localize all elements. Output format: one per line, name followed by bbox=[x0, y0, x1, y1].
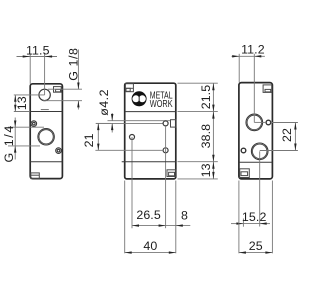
extension line from holes to 21 dim bbox=[95, 149, 163, 151]
svg-text:13: 13 bbox=[15, 96, 29, 110]
dimension 11.5 bbox=[17, 54, 58, 84]
svg-text:11.2: 11.2 bbox=[241, 42, 265, 56]
right view port circle top bbox=[246, 114, 263, 131]
dimension 26.5 bbox=[132, 225, 166, 227]
left view seam line lower bbox=[30, 161, 62, 163]
left view top-right notch bbox=[54, 87, 62, 93]
front view hole top-right bbox=[163, 121, 168, 126]
dimension 38.8 bbox=[212, 112, 214, 119]
front view top-left notch bbox=[125, 84, 133, 92]
left view port centerline vertical bbox=[44, 57, 46, 95]
extension lines right of front view bbox=[178, 83, 218, 179]
dimension 22 bbox=[260, 123, 298, 151]
label diameter 4.2 bbox=[111, 113, 113, 133]
dimension 25 bbox=[239, 181, 273, 254]
front view bottom-right tab bbox=[167, 170, 176, 177]
svg-text:25: 25 bbox=[249, 239, 263, 253]
svg-text:40: 40 bbox=[143, 239, 157, 253]
left view port G 1/8 circle bbox=[39, 89, 50, 100]
dimension 11.2 bbox=[232, 54, 265, 83]
dimension 40 bbox=[125, 181, 176, 254]
svg-text:WORK: WORK bbox=[150, 99, 173, 110]
svg-text:26.5: 26.5 bbox=[136, 208, 161, 222]
left view seam line upper bbox=[30, 111, 62, 113]
dimension 13 left bbox=[14, 95, 30, 112]
right view top-right notch bbox=[263, 85, 272, 93]
left view bottom-left tab bbox=[31, 173, 40, 179]
svg-text:G 1/4: G 1/4 bbox=[2, 124, 16, 162]
left view screw hole lower-right bbox=[56, 148, 62, 154]
right view small hole left bbox=[241, 148, 246, 153]
right view seam line bbox=[239, 161, 273, 163]
front view seam line lower bbox=[122, 161, 176, 163]
right view bottom-left tab bbox=[240, 169, 250, 178]
front view body outline bbox=[125, 83, 176, 179]
dimension 21 bbox=[96, 123, 111, 150]
label G 1/4 bbox=[8, 118, 44, 160]
svg-text:15.2: 15.2 bbox=[242, 210, 267, 224]
dimension 13 right bbox=[212, 162, 214, 169]
right view port circle bottom bbox=[251, 143, 268, 160]
right view centerline to small hole bbox=[254, 121, 266, 123]
svg-text:38.8: 38.8 bbox=[199, 124, 213, 149]
front view hole left bbox=[130, 135, 135, 140]
extension hole column left bbox=[131, 137, 133, 228]
front view hole bottom-right bbox=[163, 148, 168, 153]
label G 1/8 bbox=[43, 50, 82, 110]
front view cross-hole lower line bbox=[96, 122, 163, 124]
left view port G 1/4 circle bbox=[38, 129, 54, 145]
dimension 21.5 bbox=[212, 83, 214, 90]
left view slot above seam bbox=[41, 109, 49, 111]
left view port centerline horizontal bbox=[14, 94, 45, 96]
front view cross-hole upper line bbox=[108, 120, 171, 122]
right view small hole right bbox=[266, 120, 271, 125]
dimension 8 bbox=[166, 225, 191, 227]
svg-text:22: 22 bbox=[280, 128, 294, 142]
svg-text:8: 8 bbox=[181, 208, 188, 222]
left view body outline bbox=[30, 84, 62, 179]
svg-text:ø4.2: ø4.2 bbox=[97, 89, 111, 116]
logo Metal Work disc bbox=[132, 91, 147, 106]
right view body outline bbox=[239, 83, 273, 179]
right view centerline top port bbox=[253, 54, 255, 123]
svg-text:G 1/8: G 1/8 bbox=[67, 47, 81, 80]
front view seam line upper bbox=[125, 111, 176, 113]
front view right edge tab bbox=[171, 120, 177, 127]
svg-text:11.5: 11.5 bbox=[26, 44, 50, 58]
svg-text:21.5: 21.5 bbox=[199, 85, 213, 110]
svg-text:21: 21 bbox=[82, 133, 96, 147]
left view screw hole upper-left bbox=[31, 121, 37, 127]
extension hole column right bbox=[165, 126, 167, 228]
svg-text:13: 13 bbox=[199, 163, 213, 177]
dimension 15.2 bbox=[231, 151, 270, 226]
